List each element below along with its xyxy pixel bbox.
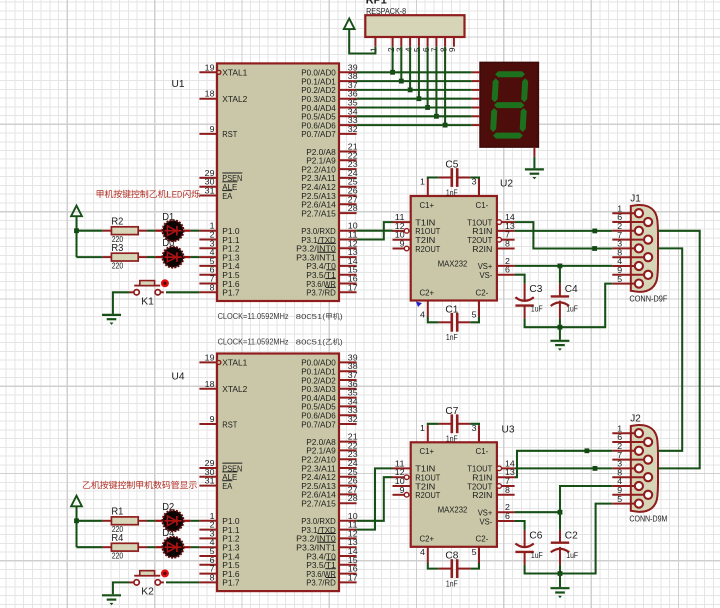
- U1 pin 29 PSEN: [199, 169, 242, 183]
- push button K1: [129, 279, 169, 307]
- J2 pin 6: [612, 433, 652, 446]
- wire K2 to U4 P1.7: [166, 581, 199, 583]
- junction RP1-P0.6: [443, 123, 448, 128]
- svg-text:1: 1: [370, 47, 379, 52]
- capacitor C4 1uF: [551, 283, 579, 319]
- 7-seg segment C: [520, 108, 527, 132]
- U2 pin 6 VS-: [497, 266, 515, 275]
- wire VCC to RP1 pin1: [349, 29, 375, 53]
- annotation: yi-ji button controls jia-ji 7-seg display (red): [83, 481, 197, 489]
- 7-seg pin 5: [472, 107, 480, 109]
- svg-text:9: 9: [617, 486, 623, 495]
- U4 pin 5 P1.4: [199, 547, 239, 561]
- U4 pin 38 P0.1/AD1: [301, 362, 358, 376]
- op-amp/driver MAX232 U2 body: [411, 196, 497, 301]
- wire J1 pin3 to J2 pin2 (crossover): [658, 248, 682, 450]
- U4 pin 7 P1.6: [199, 565, 239, 579]
- U1 pin 31 EA: [199, 187, 232, 201]
- U1 pin 24 P2.3/A11: [301, 169, 358, 183]
- U3 pin 13: [497, 468, 515, 477]
- svg-text:4: 4: [617, 257, 623, 266]
- svg-text:1nF: 1nF: [446, 579, 458, 588]
- U1 pin 32 P0.7/AD7: [301, 125, 358, 139]
- U2 pin 10: [393, 231, 411, 240]
- svg-text:4: 4: [404, 47, 413, 52]
- svg-text:1uF: 1uF: [531, 305, 543, 314]
- svg-text:C8: C8: [445, 550, 458, 562]
- svg-text:14: 14: [348, 547, 358, 556]
- svg-text:7: 7: [505, 231, 511, 240]
- wire R3 to D0: [147, 256, 155, 258]
- svg-text:2: 2: [387, 47, 396, 52]
- wire C7 to U3 pins 1,3: [428, 424, 479, 426]
- J2 pin 4: [612, 477, 643, 490]
- U4 pin 30 ALE: [199, 468, 237, 482]
- svg-text:28: 28: [348, 204, 358, 213]
- U1 pin 8 P1.7: [199, 283, 239, 297]
- U4 pin 11 P3.1/TXD: [301, 521, 358, 535]
- svg-text:XTAL1: XTAL1: [222, 358, 247, 368]
- svg-text:14: 14: [505, 213, 515, 222]
- svg-text:1nF: 1nF: [446, 188, 458, 197]
- U4 pin 21 P2.0/A8: [306, 433, 358, 447]
- svg-text:31: 31: [205, 187, 215, 196]
- svg-text:3: 3: [617, 460, 623, 469]
- U2 pin 5 C2-: [472, 301, 479, 320]
- RP1 pin 2: [387, 37, 396, 52]
- svg-text:11: 11: [395, 213, 405, 222]
- U4 pin 33 P0.6/AD6: [301, 406, 358, 420]
- svg-text:C1+: C1+: [420, 200, 435, 210]
- U1 pin 11 P3.1/TXD: [301, 231, 358, 245]
- J1 pin 3: [612, 240, 643, 253]
- U3 reference label: [502, 424, 515, 436]
- wire VCC to R1: [77, 520, 103, 522]
- capacitor C8 1nF: [439, 550, 471, 589]
- wire U1 P3.0/RXD to U2 R1OUT: [357, 230, 393, 232]
- junction VCC/R1: [74, 518, 79, 523]
- wire R1 to D2: [147, 520, 155, 522]
- svg-text:37: 37: [348, 81, 358, 90]
- J1 pin 8: [612, 248, 652, 261]
- 7-seg pin 4: [472, 98, 480, 100]
- svg-text:5: 5: [413, 47, 422, 52]
- wire RP1 pin 3 to P0.1: [400, 47, 402, 81]
- U4 pin 12 P3.2/INT0: [296, 529, 358, 543]
- U1 pin 18 XTAL2: [199, 90, 247, 104]
- wire C6/C2 ground rail to J2 pin5: [525, 504, 613, 574]
- U1 reference label: [172, 78, 185, 90]
- junction RP1-P0.0: [390, 70, 395, 75]
- svg-text:12: 12: [348, 239, 358, 248]
- wire C2 bottom to rail: [559, 565, 561, 574]
- svg-text:3: 3: [617, 240, 623, 249]
- svg-text:8: 8: [505, 240, 511, 249]
- U4 pin 9 RST: [199, 415, 238, 429]
- svg-text:16: 16: [348, 275, 358, 284]
- svg-text:8: 8: [210, 573, 216, 582]
- wire D4 to U4 P1.3: [191, 546, 200, 548]
- svg-text:13: 13: [505, 468, 515, 477]
- J2 pin 3: [612, 460, 643, 473]
- svg-text:5: 5: [472, 548, 478, 557]
- svg-text:10: 10: [348, 512, 358, 521]
- U4 pin 22 P2.1/A9: [306, 441, 358, 455]
- U1 pin 28 P2.7/A15: [301, 204, 358, 218]
- svg-text:11: 11: [395, 459, 405, 468]
- junction RP1-P0.5: [434, 114, 439, 119]
- svg-text:K2: K2: [141, 586, 154, 598]
- svg-text:R2IN: R2IN: [472, 244, 492, 254]
- svg-text:13: 13: [348, 248, 358, 257]
- svg-text:R1: R1: [111, 506, 123, 518]
- junction rail/C2: [558, 571, 563, 576]
- wire R2 to D1: [147, 230, 155, 232]
- svg-text:18: 18: [205, 90, 215, 99]
- wire C1 to U2 pins 4,5: [428, 317, 479, 323]
- wire D2 to U4 P1.0: [191, 520, 200, 522]
- svg-text:17: 17: [348, 283, 358, 292]
- svg-text:C1-: C1-: [476, 446, 489, 456]
- J2 pin 5: [612, 495, 643, 508]
- svg-text:C1-: C1-: [476, 200, 489, 210]
- U1 pin 36 P0.3/AD3: [301, 90, 358, 104]
- RP1 pin 4: [404, 37, 413, 52]
- capacitor C7 1nF: [439, 405, 471, 444]
- svg-text:CLOCK=11.0592MHz: CLOCK=11.0592MHz: [218, 312, 289, 321]
- svg-text:U1: U1: [172, 78, 185, 90]
- U4 pin 27 P2.6/A14: [301, 485, 358, 499]
- wire U1 P0.2 to 7-seg: [357, 89, 472, 91]
- wire VCC rail bottom left: [75, 506, 77, 547]
- U2 reference label: [500, 177, 513, 189]
- J2 pin 8: [612, 468, 652, 481]
- U1 pin 2 P1.1: [199, 231, 239, 245]
- U4 pin 14 P3.4/T0: [306, 547, 358, 561]
- svg-text:9: 9: [448, 47, 457, 52]
- 7-seg pin 2: [472, 80, 480, 82]
- U2 pin 12: [393, 222, 409, 233]
- U1 pin 15 P3.5/T1: [306, 266, 358, 280]
- svg-text:P2.7/A15: P2.7/A15: [301, 208, 336, 218]
- J1 pin 7: [612, 231, 652, 244]
- wire U2 VS+ to J1 pin4: [515, 265, 613, 267]
- svg-text:3: 3: [210, 239, 216, 248]
- U4 pin 28 P2.7/A15: [301, 494, 358, 508]
- svg-text:1: 1: [420, 178, 426, 187]
- wire RP1 pin 4 to P0.2: [409, 47, 411, 90]
- RP1 pin 6: [422, 37, 431, 52]
- RP1 pin 3: [396, 37, 405, 52]
- wire RP1 pin 8 to P0.6: [444, 47, 446, 125]
- svg-text:13: 13: [348, 538, 358, 547]
- svg-text:10: 10: [348, 222, 358, 231]
- svg-text:6: 6: [210, 266, 216, 275]
- U1 pin 5 P1.4: [199, 257, 239, 271]
- U4 pin 3 P1.2: [199, 529, 239, 543]
- svg-text:P1.7: P1.7: [222, 578, 240, 588]
- svg-text:R3: R3: [111, 242, 123, 254]
- U4 pin 32 P0.7/AD7: [301, 415, 358, 429]
- svg-text:U3: U3: [502, 424, 515, 436]
- svg-text:7: 7: [617, 231, 623, 240]
- wire U1 P0.0 to 7-seg: [357, 71, 472, 73]
- svg-text:34: 34: [348, 107, 358, 116]
- U3 pin 2 VS+: [497, 503, 515, 512]
- svg-text:7: 7: [210, 275, 216, 284]
- svg-text:38: 38: [348, 72, 358, 81]
- svg-text:2: 2: [505, 257, 511, 266]
- wire U1 P3.1/TXD to U2 T1IN: [357, 222, 393, 239]
- svg-text:5: 5: [472, 311, 478, 320]
- U1 pin 27 P2.6/A14: [301, 195, 358, 209]
- svg-text:J1: J1: [630, 193, 641, 205]
- svg-text:6: 6: [210, 556, 216, 565]
- J1 pin 9: [612, 266, 652, 279]
- svg-text:27: 27: [348, 485, 358, 494]
- resistor R1 220: [103, 506, 147, 534]
- wire C8 to U3 pins 4,5: [428, 563, 479, 569]
- svg-text:220: 220: [112, 551, 124, 560]
- svg-text:R2IN: R2IN: [472, 490, 492, 500]
- 7-seg pin 1: [472, 71, 480, 73]
- U4 pin 6 P1.5: [199, 556, 239, 570]
- 7-seg pin 3: [472, 89, 480, 91]
- svg-text:9: 9: [617, 266, 623, 275]
- svg-text:4: 4: [420, 311, 426, 320]
- resistor R4 220: [103, 532, 147, 560]
- svg-text:3: 3: [396, 47, 405, 52]
- U4 pin 2 P1.1: [199, 521, 239, 535]
- U1 pin 17 P3.7/RD: [306, 283, 358, 297]
- junction RP1-P0.1: [399, 79, 404, 84]
- svg-text:8: 8: [617, 468, 623, 477]
- svg-text:33: 33: [348, 406, 358, 415]
- U1 pin 34 P0.5/AD5: [301, 107, 358, 121]
- U1 pin 12 P3.2/INT0: [296, 239, 358, 253]
- junction on R1IN-J2.2 wire: [585, 448, 590, 453]
- wire U1 P0.5 to 7-seg: [357, 115, 472, 117]
- svg-text:19: 19: [205, 63, 215, 72]
- U2 pin 9: [393, 240, 409, 251]
- svg-text:VS-: VS-: [480, 516, 493, 526]
- wire U2 R1IN to J1 pin2: [515, 230, 613, 232]
- 7-seg common pin: [533, 147, 535, 157]
- svg-text:8: 8: [505, 486, 511, 495]
- wire ground to K2: [113, 582, 129, 594]
- ground (C6/C2 rail): [551, 588, 570, 598]
- svg-text:30: 30: [205, 178, 215, 187]
- svg-text:): ): [340, 338, 343, 347]
- annotation: jia-ji button controls yi-ji LED blink (red): [97, 189, 200, 199]
- svg-text:RESPACK-8: RESPACK-8: [366, 6, 406, 16]
- svg-text:1uF: 1uF: [531, 551, 543, 560]
- svg-text:K1: K1: [141, 296, 154, 308]
- U4 pin 37 P0.2/AD2: [301, 371, 358, 385]
- wire VCC rail top left: [75, 216, 77, 257]
- wire U4 P3.1/TXD to U3 T1IN: [357, 468, 393, 529]
- svg-text:34: 34: [348, 397, 358, 406]
- U4 pin 36 P0.3/AD3: [301, 380, 358, 394]
- 7-seg segment F: [492, 78, 499, 102]
- svg-text:C6: C6: [529, 529, 542, 541]
- wire U3 VS+ to J2 pin4: [515, 486, 613, 512]
- junction VS+/C2: [558, 510, 563, 515]
- wire RP1 pin 2 to P0.0: [392, 47, 394, 73]
- 7-segment display body: [480, 62, 538, 147]
- svg-text:5: 5: [210, 547, 216, 556]
- J1 pin 6: [612, 213, 652, 226]
- U1 pin 22 P2.1/A9: [306, 151, 358, 165]
- U3 pin 8: [497, 486, 515, 495]
- svg-text:XTAL1: XTAL1: [222, 68, 247, 78]
- J2 pin 1: [612, 424, 643, 437]
- wire 7-seg common to ground: [533, 157, 535, 168]
- svg-text:28: 28: [348, 494, 358, 503]
- svg-text:CONN-D9M: CONN-D9M: [629, 513, 667, 523]
- svg-text:6: 6: [617, 433, 623, 442]
- U4 pin 18 XTAL2: [199, 380, 247, 394]
- connector J2 CONN-D9M body: [629, 413, 667, 524]
- svg-text:1: 1: [420, 424, 426, 433]
- U3 pin 1 C1+: [420, 424, 428, 443]
- svg-text:26: 26: [348, 477, 358, 486]
- svg-text:8: 8: [617, 248, 623, 257]
- U3 pin 12: [393, 468, 409, 479]
- svg-text:P0.7/AD7: P0.7/AD7: [301, 419, 336, 429]
- svg-text:J2: J2: [630, 413, 641, 425]
- svg-text:C2-: C2-: [476, 287, 489, 297]
- svg-text:12: 12: [395, 468, 405, 477]
- wire U1 P0.4 to 7-seg: [357, 106, 472, 108]
- svg-text:MAX232: MAX232: [438, 258, 468, 268]
- RP1 pin 5: [413, 37, 422, 52]
- 7-seg pin 7: [472, 124, 480, 126]
- svg-text:17: 17: [348, 573, 358, 582]
- svg-text:P2.7/A15: P2.7/A15: [301, 499, 336, 509]
- svg-text:3: 3: [210, 529, 216, 538]
- power terminal VCC (RP1): [344, 19, 355, 30]
- svg-text:1nF: 1nF: [446, 333, 458, 342]
- svg-text:13: 13: [505, 222, 515, 231]
- svg-text:RST: RST: [222, 129, 238, 139]
- capacitor C5 1nF: [439, 159, 471, 198]
- 7-seg segment G: [494, 102, 524, 108]
- LED D4 label: [162, 527, 174, 539]
- U4 pin 39 P0.0/AD0: [301, 353, 358, 367]
- U4 annotation CLOCK=11.0592MHz 80C51: [218, 338, 343, 347]
- svg-text:1uF: 1uF: [566, 551, 578, 560]
- U3 pin 6 VS-: [497, 512, 515, 521]
- svg-text:2: 2: [505, 503, 511, 512]
- svg-text:15: 15: [348, 556, 358, 565]
- svg-text:C7: C7: [445, 405, 458, 417]
- svg-text:U2: U2: [500, 177, 513, 189]
- svg-text:25: 25: [348, 178, 358, 187]
- wire J1 pin2 to J2 pin3 (crossover): [658, 231, 700, 469]
- wire RP1 pin 5 to P0.3: [418, 47, 420, 99]
- U4 pin 29 PSEN: [199, 459, 242, 473]
- J1 pin 4: [612, 257, 643, 270]
- U4 pin 1 P1.0: [199, 512, 239, 526]
- svg-text:CONN-D9F: CONN-D9F: [629, 293, 667, 303]
- wire U1 P0.6 to 7-seg: [357, 124, 472, 126]
- wire RP1 pin 7 to P0.5: [435, 47, 437, 117]
- U4 reference label: [172, 371, 185, 383]
- svg-text:U4: U4: [172, 371, 185, 383]
- capacitor C2 1uF: [551, 529, 579, 565]
- 7-seg segment E: [490, 108, 497, 132]
- svg-text:14: 14: [505, 459, 515, 468]
- J1 pin 5: [612, 275, 643, 288]
- U4 pin 23 P2.2/A10: [301, 450, 358, 464]
- svg-text:35: 35: [348, 389, 358, 398]
- ground (K2): [102, 595, 121, 605]
- svg-text:7: 7: [431, 47, 440, 52]
- wire U1 P0.3 to 7-seg: [357, 98, 472, 100]
- U4 pin 19 XTAL1: [199, 353, 247, 367]
- wire U3 R1IN to J2 pin2: [515, 451, 613, 477]
- junction on R1IN-J1.2 wire: [592, 229, 597, 234]
- U1 pin 14 P3.4/T0: [306, 257, 358, 271]
- power terminal VCC (top left): [71, 206, 82, 217]
- svg-text:14: 14: [348, 257, 358, 266]
- svg-text:2: 2: [210, 521, 216, 530]
- U2 pin 14: [497, 213, 515, 224]
- svg-text:31: 31: [205, 477, 215, 486]
- U4 pin 25 P2.4/A12: [301, 468, 358, 482]
- svg-text:CLOCK=11.0592MHz: CLOCK=11.0592MHz: [218, 338, 289, 347]
- svg-text:C2-: C2-: [476, 534, 489, 544]
- ground (K1): [102, 315, 121, 325]
- U4 pin 16 P3.6/WR: [306, 565, 358, 579]
- LED D1: [155, 220, 190, 241]
- U1 pin 23 P2.2/A10: [301, 160, 358, 174]
- svg-text:2: 2: [210, 231, 216, 240]
- svg-text:R2OUT: R2OUT: [415, 490, 441, 500]
- svg-text:P0.7/AD7: P0.7/AD7: [301, 129, 336, 139]
- svg-text:1: 1: [210, 222, 216, 231]
- wire U3 VS- to C6: [515, 521, 525, 530]
- svg-text:36: 36: [348, 380, 358, 389]
- svg-text:C1+: C1+: [420, 446, 435, 456]
- svg-text:8: 8: [210, 283, 216, 292]
- U1 pin 3 P1.2: [199, 239, 239, 253]
- RP1 pin 9: [448, 37, 457, 52]
- U1 pin 16 P3.6/WR: [306, 275, 358, 289]
- svg-text:): ): [340, 312, 343, 321]
- LED D0: [155, 247, 190, 268]
- svg-text:VS-: VS-: [480, 270, 493, 280]
- wire U2 VS- to C3: [515, 275, 525, 284]
- svg-text:RST: RST: [222, 419, 238, 429]
- svg-text:5: 5: [210, 257, 216, 266]
- svg-text:R2: R2: [111, 216, 123, 228]
- svg-text:35: 35: [348, 99, 358, 108]
- svg-text:P1.7: P1.7: [222, 288, 240, 298]
- svg-text:26: 26: [348, 187, 358, 196]
- svg-text:27: 27: [348, 195, 358, 204]
- wire U2 T1OUT to J1 pin3: [515, 222, 613, 248]
- 7-seg segment A: [495, 71, 525, 77]
- op-amp/driver MAX232 U3 body: [411, 442, 497, 547]
- svg-text:7: 7: [505, 477, 511, 486]
- U3 pin 4 C2+: [420, 547, 428, 564]
- junction RP1-P0.3: [417, 96, 422, 101]
- svg-text:39: 39: [348, 353, 358, 362]
- wire RP1 pin 6 to P0.4: [427, 47, 429, 108]
- U1 pin 33 P0.6/AD6: [301, 116, 358, 130]
